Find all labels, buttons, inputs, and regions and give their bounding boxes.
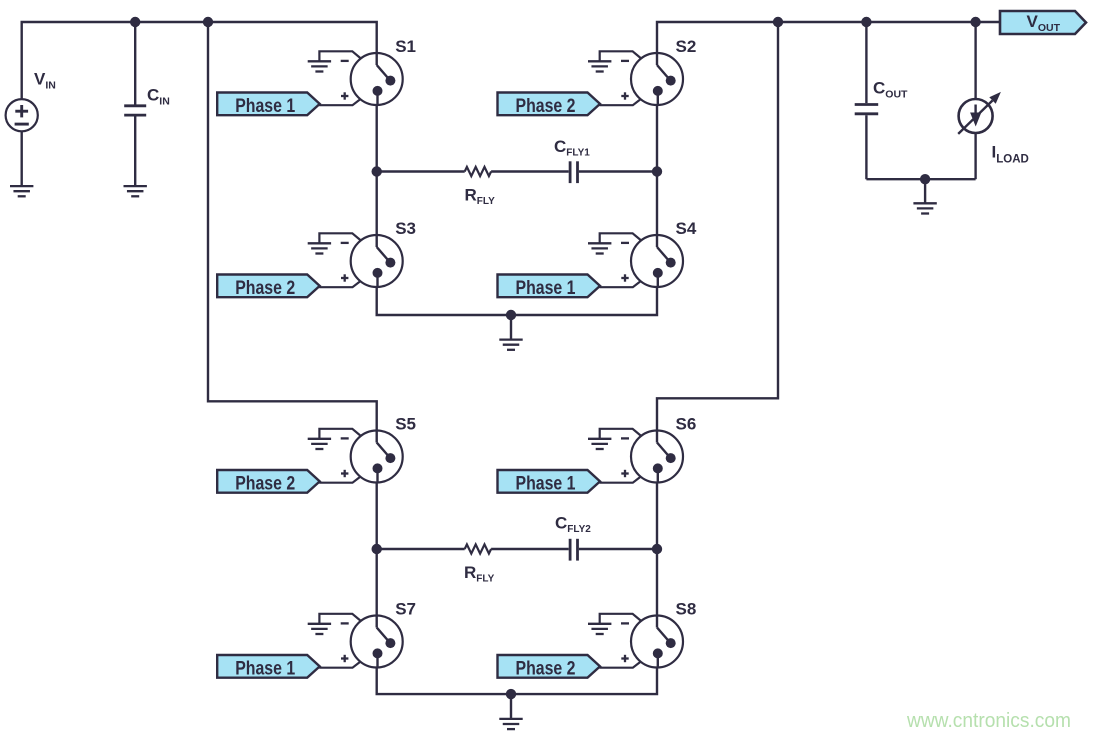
wire: upper bridge ground stem xyxy=(510,315,512,340)
junction: lower bridge ground xyxy=(506,689,516,699)
wire: CIN top lead xyxy=(134,22,136,105)
wire: lower fly rail left segment xyxy=(377,548,465,550)
junction: COUT / output rail xyxy=(861,17,871,27)
svg-text:CFLY2: CFLY2 xyxy=(555,514,591,536)
switch S5 xyxy=(351,430,403,483)
wire: S6-S8 column xyxy=(656,483,658,616)
svg-text:Phase 2: Phase 2 xyxy=(235,278,295,299)
svg-text:Phase 1: Phase 1 xyxy=(516,278,576,299)
node V_OUT callout xyxy=(1000,11,1086,34)
plus sign S3 xyxy=(341,274,348,281)
current source I_LOAD xyxy=(958,92,1001,134)
wire: upper fly rail middle segment xyxy=(491,170,569,172)
wire: lower fly rail right segment xyxy=(579,548,657,550)
wire: S3 negative terminal to ground xyxy=(319,233,361,243)
svg-text:ILOAD: ILOAD xyxy=(992,143,1029,166)
wire: output bottom rail xyxy=(866,178,975,180)
wire: S1 negative terminal to ground xyxy=(319,51,361,61)
callout Phase 1 (S6) xyxy=(498,470,601,494)
wire: S7 negative terminal to ground xyxy=(319,614,361,624)
svg-text:Phase 2: Phase 2 xyxy=(235,473,295,494)
minus sign S7 xyxy=(341,622,349,624)
switch S4 xyxy=(631,235,683,288)
svg-text:S4: S4 xyxy=(676,219,697,238)
minus sign S3 xyxy=(341,242,349,244)
junction: S6-S8 / lower fly rail xyxy=(652,544,662,554)
plus sign S5 xyxy=(341,470,348,477)
callout Phase 2 (S5) xyxy=(217,470,320,494)
minus sign S5 xyxy=(341,437,349,439)
ground at output xyxy=(913,203,936,213)
plus sign S2 xyxy=(621,92,628,99)
ground under upper bridge xyxy=(499,340,522,350)
ground at S7 negative terminal xyxy=(308,624,331,634)
svg-text:RFLY: RFLY xyxy=(465,186,496,208)
plus sign S4 xyxy=(621,274,628,281)
wire: CIN bottom lead xyxy=(134,116,136,186)
junction: S1-S3 / upper fly rail xyxy=(372,166,382,176)
svg-text:S1: S1 xyxy=(395,37,416,56)
wire: S2 positive terminal feed xyxy=(600,99,641,105)
ground under CIN xyxy=(124,186,147,196)
svg-text:S6: S6 xyxy=(676,415,697,434)
wire: S2-S4 column xyxy=(656,105,658,235)
plus sign S8 xyxy=(621,655,628,662)
plus sign S7 xyxy=(341,655,348,662)
wire: S2 negative terminal to ground xyxy=(600,51,642,61)
wire: S6 positive terminal feed xyxy=(600,477,641,483)
junction: right branch / output rail xyxy=(773,17,783,27)
switch S7 xyxy=(351,615,403,668)
callout Phase 1 (S1) xyxy=(217,93,320,117)
svg-text:Phase 1: Phase 1 xyxy=(516,473,576,494)
svg-text:Phase 1: Phase 1 xyxy=(235,96,295,117)
svg-text:COUT: COUT xyxy=(873,79,908,101)
switch S3 xyxy=(351,235,403,288)
switch S8 xyxy=(631,615,683,668)
wire: S4 negative terminal to ground xyxy=(600,233,642,243)
wire: S5-S7 column xyxy=(376,483,378,616)
switch S1 xyxy=(351,53,403,106)
wire: S1 positive terminal feed xyxy=(319,99,360,105)
minus sign S4 xyxy=(621,242,629,244)
capacitor C_FLY2 plates xyxy=(570,539,577,561)
junction: upper bridge ground xyxy=(506,310,516,320)
svg-text:CIN: CIN xyxy=(147,86,170,108)
wire: upper fly rail right segment xyxy=(579,170,657,172)
wire: COUT bottom lead xyxy=(865,115,867,179)
ground at S2 negative terminal xyxy=(588,61,611,71)
wire: S5 negative terminal to ground xyxy=(319,429,361,439)
resistor R_FLY (upper) xyxy=(465,167,491,176)
callout Phase 1 (S4) xyxy=(498,275,601,299)
wire: S1-S3 column xyxy=(376,105,378,235)
capacitor C_OUT plates xyxy=(855,105,879,114)
svg-text:S2: S2 xyxy=(676,37,697,56)
plus sign S6 xyxy=(621,470,628,477)
svg-text:RFLY: RFLY xyxy=(464,563,495,585)
wire: input top rail with VIN lead and S1 drop xyxy=(22,22,377,100)
svg-text:Phase 2: Phase 2 xyxy=(516,96,576,117)
junction: S2-S4 / upper fly rail xyxy=(652,166,662,176)
ground at S5 negative terminal xyxy=(308,439,331,449)
junction: S5-S7 / lower fly rail xyxy=(372,544,382,554)
capacitor C_IN plates xyxy=(124,106,146,115)
wire: output ground stem xyxy=(924,179,926,203)
ground under VIN xyxy=(10,186,33,196)
junction: output ground xyxy=(920,174,930,184)
ground under lower bridge xyxy=(499,719,522,729)
minus sign S6 xyxy=(621,437,629,439)
svg-text:S3: S3 xyxy=(395,219,416,238)
junction: ILOAD / output rail xyxy=(970,17,980,27)
callout Phase 2 (S3) xyxy=(217,275,320,299)
wire: VIN bottom lead xyxy=(21,131,23,186)
resistor R_FLY (lower) xyxy=(465,544,491,553)
wire: S8 negative terminal to ground xyxy=(600,614,642,624)
minus sign S8 xyxy=(621,622,629,624)
wire: output top rail with S2 drop xyxy=(657,22,1000,54)
wire: left branch down to lower bridge (S5) xyxy=(208,22,377,431)
callout Phase 2 (S2) xyxy=(498,93,601,117)
ground at S4 negative terminal xyxy=(588,243,611,253)
wire: S5 positive terminal feed xyxy=(319,477,360,483)
wire: right branch down to S6 xyxy=(657,22,778,431)
wire: S3 positive terminal feed xyxy=(319,281,360,287)
svg-text:S7: S7 xyxy=(395,600,416,619)
wire: upper fly rail left segment xyxy=(377,170,465,172)
ground at S1 negative terminal xyxy=(308,61,331,71)
wire: COUT top lead xyxy=(865,22,867,103)
ground at S6 negative terminal xyxy=(588,439,611,449)
callout Phase 2 (S8) xyxy=(498,655,601,679)
wire: S4 positive terminal feed xyxy=(600,281,641,287)
wire: S7 positive terminal feed xyxy=(319,662,360,668)
ground at S8 negative terminal xyxy=(588,624,611,634)
wire: ILOAD bottom lead xyxy=(974,133,976,179)
wire: S6 negative terminal to ground xyxy=(600,429,642,439)
svg-text:Phase 2: Phase 2 xyxy=(516,658,576,679)
capacitor C_FLY1 plates xyxy=(570,161,577,183)
callout Phase 1 (S7) xyxy=(217,655,320,679)
svg-text:CFLY1: CFLY1 xyxy=(554,137,590,159)
svg-text:www.cntronics.com: www.cntronics.com xyxy=(906,709,1071,732)
wire: lower bridge bottom rail xyxy=(377,668,657,695)
wire: ILOAD top lead xyxy=(974,22,976,99)
svg-text:Phase 1: Phase 1 xyxy=(235,658,295,679)
junction: CIN / input rail xyxy=(130,17,140,27)
wire: lower bridge ground stem xyxy=(510,694,512,719)
junction: left branch / input rail xyxy=(203,17,213,27)
switch S2 xyxy=(631,53,683,106)
switch S6 xyxy=(631,430,683,483)
svg-text:VIN: VIN xyxy=(34,70,56,92)
wire: lower fly rail middle segment xyxy=(491,548,569,550)
wire: upper bridge bottom rail xyxy=(377,287,657,315)
wire: S8 positive terminal feed xyxy=(600,662,641,668)
minus sign S1 xyxy=(341,60,349,62)
minus sign S2 xyxy=(621,60,629,62)
ground at S3 negative terminal xyxy=(308,243,331,253)
svg-text:S5: S5 xyxy=(395,415,416,434)
svg-text:S8: S8 xyxy=(676,600,697,619)
plus sign S1 xyxy=(341,92,348,99)
voltage source V_IN xyxy=(6,99,38,131)
